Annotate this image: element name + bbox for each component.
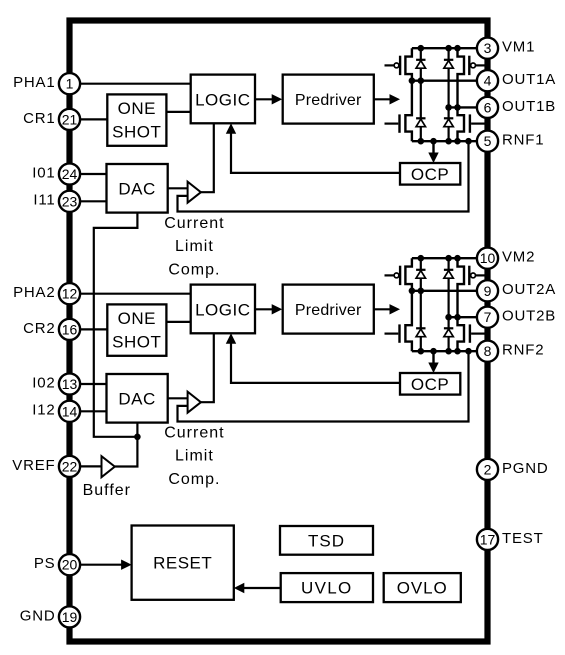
svg-text:PHA2: PHA2 [13,284,55,301]
svg-text:1: 1 [66,76,74,92]
svg-text:Comp.: Comp. [168,471,220,488]
svg-text:OUT2B: OUT2B [502,308,556,325]
svg-text:I01: I01 [32,164,55,181]
wire PHA1 to LOGIC1 [80,83,191,85]
svg-text:Current: Current [164,215,224,232]
svg-text:8: 8 [484,343,492,359]
svg-text:17: 17 [480,531,496,547]
junction dot VREF node [134,434,141,441]
svg-text:RNF1: RNF1 [502,132,544,149]
label Current Limit Comp. (channel 2) [164,424,224,488]
pin 2 PGND [477,459,549,480]
pin 12 PHA2 [13,283,80,304]
wire VM1 top rail [412,47,477,49]
diode D8 (lower right body diode) [444,328,453,336]
svg-text:7: 7 [484,309,492,325]
junction dots VM2 rail [418,255,461,262]
svg-text:Predriver: Predriver [295,302,362,319]
svg-text:VM1: VM1 [502,39,535,56]
svg-text:14: 14 [62,403,78,419]
svg-text:9: 9 [484,283,492,299]
pin 3 VM1 [477,38,535,59]
svg-text:TSD: TSD [308,531,345,550]
pin 23 I11 [33,191,80,212]
diode D1 (upper left body diode) [416,60,425,68]
diode D6 (upper right body diode) [444,270,453,278]
block ONE SHOT (channel 2) [107,304,166,355]
transistor low-side N-ch right Q8 gate [470,324,485,342]
transistor high-side P-ch right Q2 channel [458,48,465,141]
svg-text:24: 24 [62,166,78,182]
svg-text:OVLO: OVLO [397,579,448,598]
block LOGIC (channel 1) [191,75,255,124]
svg-text:PS: PS [34,555,56,572]
wire OUT1A node line [412,79,477,81]
junction dots VM1 rail [418,45,461,52]
block DAC (channel 1) [107,164,168,213]
svg-text:Comp.: Comp. [168,261,220,278]
svg-text:CR2: CR2 [23,320,55,337]
svg-text:19: 19 [62,609,78,625]
pin 1 PHA1 [13,73,80,94]
svg-text:5: 5 [484,133,492,149]
wire RNF1 bottom rail [412,140,477,142]
block TSD [280,526,373,555]
diode D4 (lower right body diode) [444,118,453,126]
svg-text:I11: I11 [33,192,55,209]
svg-text:OCP: OCP [411,375,449,394]
pin 7 OUT2B [477,307,556,328]
transistor low-side N-ch left Q3 gate [385,114,400,132]
svg-text:GND: GND [20,607,56,624]
svg-text:4: 4 [484,73,492,89]
svg-text:10: 10 [480,250,496,266]
diode line left D1/D3 [420,48,422,141]
svg-text:PGND: PGND [502,460,549,477]
transistor high-side P-ch left Q1 channel [405,48,412,141]
wire VREF to buffer [80,465,102,467]
wire CR1 to ONE SHOT 1 [80,118,107,120]
pin 4 OUT1A [477,70,556,91]
svg-text:VM2: VM2 [502,249,535,266]
diode line left D5/D7 [420,258,422,351]
pin 16 CR2 [23,319,80,340]
op-amp current limit comparator 2 [188,392,201,413]
svg-text:LOGIC: LOGIC [195,301,250,320]
pin 14 I12 [32,401,80,422]
wire RNF1 sense to comparator 1 input [178,141,469,211]
junction dots RNF2 rail [418,348,472,355]
svg-text:SHOT: SHOT [112,332,161,351]
wire RNF2 bottom rail [412,350,477,352]
svg-text:CR1: CR1 [23,110,55,127]
svg-text:OUT2A: OUT2A [502,281,556,298]
wire comparator 1 output to LOGIC1 [201,123,214,192]
junction dots RNF1 rail [418,138,472,145]
svg-text:23: 23 [62,193,78,209]
block DAC (channel 2) [107,374,168,423]
transistor low-side N-ch left Q7 gate [385,324,400,342]
pin 19 GND [20,606,80,627]
block Predriver (channel 2) [283,285,374,334]
pin 13 I02 [32,373,80,394]
wire DAC1 to current limit comparator 1 [168,187,188,189]
pin 5 RNF1 [477,131,544,152]
pin 22 VREF [12,456,80,477]
svg-text:RNF2: RNF2 [502,342,544,359]
pin 17 TEST [477,529,544,550]
wire I01 to DAC1 [80,173,107,175]
arrow RNF2 rail to OCP2 [428,351,438,373]
wire RNF2 sense to comparator 2 input [178,351,469,421]
op-amp buffer (VREF) [102,456,115,477]
block LOGIC (channel 2) [191,285,255,334]
wire ONE SHOT 1 to LOGIC1 [166,111,190,113]
junction dots OUT2B [445,314,461,321]
diode line right D6/D8 [448,258,450,351]
arrow LOGIC1 to Predriver1 [255,94,282,104]
svg-text:VREF: VREF [12,457,55,474]
arrow Predriver2 to bridge gates [374,304,400,314]
wire VREF branch to DAC1 [94,213,138,437]
transistor Q1 gate [385,56,401,75]
svg-text:Current: Current [164,424,224,441]
wire CR2 to ONE SHOT 2 [80,328,107,330]
wire comparator 2 output to LOGIC2 [201,333,214,402]
pin 21 CR1 [23,109,80,130]
svg-text:SHOT: SHOT [112,122,161,141]
svg-text:Limit: Limit [175,448,214,465]
svg-text:OUT1A: OUT1A [502,71,556,88]
svg-text:3: 3 [484,40,492,56]
svg-text:16: 16 [62,321,78,337]
block OCP (channel 2) [400,373,460,395]
wire OUT2B node line [449,316,477,318]
transistor Q2 gate [469,56,484,75]
wire OUT2A node line [412,290,477,292]
wire I02 to DAC2 [80,383,107,385]
transistor low-side N-ch right Q4 gate [470,114,485,132]
IC outline border frame [70,21,488,642]
svg-text:13: 13 [62,376,78,392]
svg-text:PHA1: PHA1 [13,74,55,91]
svg-text:12: 12 [62,286,78,302]
arrow Predriver1 to bridge gates [374,94,400,104]
block OCP (channel 1) [400,163,460,185]
pin 20 PS [34,554,80,575]
svg-text:I12: I12 [32,402,55,419]
transistor Q5 gate [385,266,401,285]
diode D7 (lower left body diode) [416,328,425,336]
block UVLO [281,573,373,602]
wire ONE SHOT 2 to LOGIC2 [166,321,190,323]
svg-text:20: 20 [62,557,78,573]
svg-text:DAC: DAC [118,390,155,409]
op-amp current limit comparator 1 [188,182,201,203]
wire DAC2 to current limit comparator 2 [168,397,188,399]
diode D2 (upper right body diode) [444,60,453,68]
junction dots OUT1B [445,104,461,111]
pin 24 I01 [32,163,80,184]
wire buffer output to DAC2 [115,423,138,467]
pin 9 OUT2A [477,280,556,301]
block OVLO [384,573,461,602]
svg-text:Buffer: Buffer [83,482,131,499]
svg-text:6: 6 [484,99,492,115]
junction dots OUT2A [409,288,425,295]
svg-text:2: 2 [484,461,492,477]
svg-text:22: 22 [62,458,78,474]
label Current Limit Comp. (channel 1) [164,215,224,278]
diode D3 (lower left body diode) [416,118,425,126]
block Predriver (channel 1) [283,75,374,124]
block RESET [132,526,234,600]
transistor Q6 gate [469,266,484,285]
transistor high-side P-ch right Q6 channel [458,258,465,351]
transistor high-side P-ch left Q5 channel [405,258,412,351]
pin 6 OUT1B [477,97,556,118]
wire OCP2 to LOGIC2 [226,333,400,383]
svg-text:Limit: Limit [175,238,214,255]
wire PHA2 to LOGIC2 [80,293,191,295]
arrow LOGIC2 to Predriver2 [255,304,282,314]
diode D5 (upper left body diode) [416,270,425,278]
arrow RNF1 rail to OCP1 [428,141,438,163]
svg-text:OCP: OCP [411,165,449,184]
wire I11 to DAC1 [80,200,107,202]
wire OUT1B node line [449,106,477,108]
svg-text:UVLO: UVLO [301,579,353,598]
wire I12 to DAC2 [80,410,107,412]
svg-text:OUT1B: OUT1B [502,98,556,115]
arrow UVLO to RESET [234,583,281,593]
svg-text:TEST: TEST [502,530,544,547]
svg-text:DAC: DAC [118,180,155,199]
pin 8 RNF2 [477,341,544,362]
svg-text:RESET: RESET [153,554,212,573]
wire OCP1 to LOGIC1 [226,123,400,173]
svg-text:Predriver: Predriver [295,92,362,109]
junction dots OUT1A [409,77,425,84]
pin 10 VM2 [477,248,535,269]
arrow PS to RESET [80,560,132,570]
svg-text:ONE: ONE [118,99,156,118]
svg-text:ONE: ONE [118,309,156,328]
svg-text:LOGIC: LOGIC [195,91,250,110]
block ONE SHOT (channel 1) [107,94,166,145]
svg-text:21: 21 [62,111,78,127]
wire VM2 top rail [412,257,477,259]
svg-text:I02: I02 [32,374,55,391]
diode line right D2/D4 [448,48,450,141]
